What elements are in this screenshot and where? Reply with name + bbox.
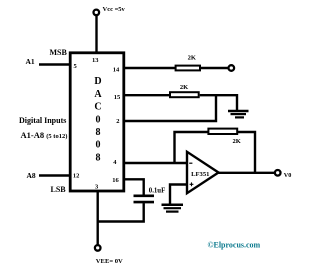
wire resistor to ground corner xyxy=(200,95,237,110)
wire pin14 to resistor xyxy=(123,67,175,69)
wire Vcc to pin13 xyxy=(95,15,97,54)
resistor 2K feedback xyxy=(208,129,237,134)
svg-text:0: 0 xyxy=(96,114,101,125)
op-amp plus sign xyxy=(190,182,194,186)
svg-text:LF351: LF351 xyxy=(191,171,209,178)
svg-text:2K: 2K xyxy=(232,138,240,145)
svg-text:2K: 2K xyxy=(188,55,196,62)
wire capacitor bottom to VEE rail xyxy=(97,203,144,221)
DAC0808 IC body U1 xyxy=(70,53,124,191)
svg-text:MSB: MSB xyxy=(50,48,68,57)
op-amp U2 LF351 xyxy=(187,152,219,193)
wire pin16 to capacitor xyxy=(123,179,144,195)
svg-text:14: 14 xyxy=(113,67,120,74)
terminal VEE xyxy=(95,245,101,251)
wire feedback left vertical xyxy=(175,132,209,163)
svg-text:Vcc =5v: Vcc =5v xyxy=(103,6,126,13)
wire pin3 down to VEE xyxy=(96,191,98,245)
svg-text:2K: 2K xyxy=(180,84,188,91)
svg-text:C: C xyxy=(94,102,101,113)
wire op-amp output to V0 xyxy=(218,172,276,174)
svg-text:©Elprocus.com: ©Elprocus.com xyxy=(208,240,261,249)
wire resistor to terminal xyxy=(201,67,228,69)
op-amp minus sign xyxy=(189,162,192,164)
ground (op-amp +) xyxy=(162,205,184,212)
svg-text:LSB: LSB xyxy=(51,185,67,194)
svg-text:2: 2 xyxy=(116,118,119,125)
terminal pin14 output xyxy=(229,65,235,71)
svg-text:13: 13 xyxy=(92,57,99,64)
svg-text:A: A xyxy=(94,89,102,100)
wire A1 to pin5 xyxy=(39,63,70,65)
svg-text:0.1uF: 0.1uF xyxy=(149,187,165,194)
svg-text:D: D xyxy=(94,76,101,87)
svg-text:12: 12 xyxy=(73,172,80,179)
svg-text:0: 0 xyxy=(96,140,101,151)
svg-text:8: 8 xyxy=(96,152,101,163)
wire A8 to pin12 xyxy=(39,174,70,176)
svg-text:V0: V0 xyxy=(284,172,292,179)
wire pin2 xyxy=(123,94,216,121)
svg-text:16: 16 xyxy=(112,177,119,184)
terminal Vcc xyxy=(94,10,100,16)
resistor 2K pin14 xyxy=(176,66,200,71)
wire feedback right to output xyxy=(237,132,255,173)
wire non-inverting input to ground xyxy=(170,185,187,204)
label DAC0808 xyxy=(94,76,102,163)
svg-text:VEE= 0V: VEE= 0V xyxy=(96,258,123,265)
svg-text:A8: A8 xyxy=(27,171,36,180)
svg-text:A1: A1 xyxy=(26,57,35,66)
svg-text:15: 15 xyxy=(114,94,121,101)
ground (pin15) xyxy=(228,111,249,117)
resistor 2K pin15 xyxy=(170,92,199,97)
capacitor C1 0.1uF xyxy=(134,196,155,202)
svg-text:8: 8 xyxy=(96,127,101,138)
wire pin15 to resistor xyxy=(123,94,169,96)
svg-text:Digital Inputs: Digital Inputs xyxy=(19,116,66,125)
wire pin4 to op-amp inverting input xyxy=(123,162,188,164)
terminal V0 xyxy=(275,170,281,176)
